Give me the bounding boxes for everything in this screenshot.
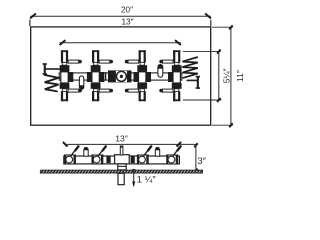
dimension 13" line (bottom view) [63,142,196,147]
rail bar (top view) [59,73,182,80]
clamp unit 3 [125,50,151,101]
left T-handle screw [43,63,60,75]
center hub block [108,70,132,82]
dimension 5 1/4" extension bottom [183,99,221,101]
svg-text:11″: 11″ [235,70,245,82]
hub flange below bar [118,164,126,170]
dimension 11" extension bottom [212,124,233,126]
capped post right (x=157.5) [155,147,160,156]
table strip (hatched) [40,170,202,173]
clamp unit 1 [60,50,82,101]
clamp unit 2 [87,50,113,101]
svg-text:20″: 20″ [121,5,133,14]
center hub block (side view) [115,155,130,164]
capped post left (x=86) [84,147,89,156]
svg-text:3″: 3″ [197,155,206,166]
spacer block right of hub (side view) [131,156,135,164]
clamp D (side view) [167,146,181,164]
extension tick left (20") [29,20,31,27]
dimension 1 1/4" line [132,169,136,187]
dimension 11" line [229,25,233,127]
extension tick right (20") [210,20,212,27]
svg-text:1 ¼″: 1 ¼″ [137,173,157,184]
svg-text:13″: 13″ [115,134,128,144]
clamp unit 4 [159,50,181,101]
spacer block left of hub (side view) [106,156,110,164]
clamp A (side view) [65,146,79,164]
hub bearing circle [116,71,126,81]
left spring [44,75,59,92]
dimension 11" extension top [212,26,233,28]
right T-handle screw [187,76,201,89]
svg-text:5¼″: 5¼″ [221,68,231,83]
dimension 3" line [194,143,198,172]
bar joint left of hub [105,72,106,80]
plate rectangle (top view) [31,27,211,125]
hanging pin left [79,76,83,89]
dimension 5 1/4" line [217,50,221,102]
stem below strip [118,173,124,184]
clamp B (side view) [92,146,106,164]
standing pin right [158,64,163,77]
rail bar (side view) [64,156,180,164]
dimension 5 1/4" extension top [183,50,221,52]
clamp C (side view) [137,146,151,164]
dimension 20" line [30,14,211,19]
right spring [182,57,197,78]
svg-text:13″: 13″ [121,18,133,27]
dimension 13" inner line [59,40,181,45]
center pin [120,146,123,155]
